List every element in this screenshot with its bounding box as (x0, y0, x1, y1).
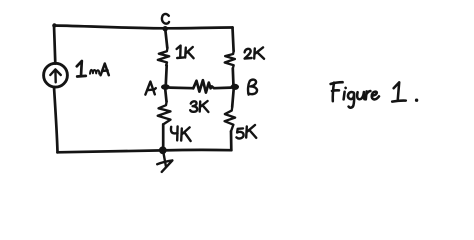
i (344, 88, 346, 100)
label 2K (245, 47, 264, 58)
r (366, 91, 371, 99)
node A dot (161, 84, 170, 90)
resistor R4 4K squiggle (158, 102, 171, 125)
wire 1K to node A (164, 65, 168, 84)
wire top from left corner to node C (54, 26, 166, 29)
ground symbol (157, 153, 172, 172)
wire node A down to 4K (165, 90, 166, 102)
wire 2K to node B (231, 69, 234, 87)
resistor R1 1K squiggle (158, 48, 169, 66)
wire 3K to node B (212, 87, 231, 89)
label 1K (177, 46, 194, 59)
e (372, 92, 379, 100)
resistor R5 5K squiggle (225, 107, 236, 132)
wire bottom (58, 150, 232, 152)
wire right vertical from bottom corner up to 5K (230, 131, 233, 150)
label A (145, 82, 155, 95)
label 4K (171, 126, 191, 141)
wire left vertical lower (54, 87, 58, 152)
ground node dot (159, 146, 167, 154)
wire top from node C to right corner (166, 26, 233, 30)
corner blob top-left (52, 23, 56, 27)
1 underlined (392, 82, 406, 101)
label 5K (236, 125, 256, 138)
period (415, 99, 418, 102)
label 1mA (77, 61, 109, 77)
wire node B down to 5K (232, 90, 233, 107)
g (348, 92, 354, 108)
node B dot (231, 84, 239, 90)
resistor R3 3K zigzag (193, 80, 212, 92)
F (331, 82, 343, 101)
label 3K (190, 101, 208, 112)
current source arrow (50, 69, 61, 82)
caption Figure 1. (331, 82, 419, 108)
wire node C down to 1K (165, 29, 167, 48)
wire 4K down to ground node (162, 124, 165, 148)
node C (163, 26, 168, 31)
u (357, 92, 364, 99)
wire left vertical upper (54, 26, 55, 64)
label C (162, 14, 169, 24)
wire node A to 3K (170, 86, 193, 89)
label B (248, 80, 257, 95)
wire right vertical upper corner down to 2K (233, 28, 234, 52)
resistor R2 2K squiggle (225, 51, 235, 69)
current source I1 circle (44, 63, 68, 87)
